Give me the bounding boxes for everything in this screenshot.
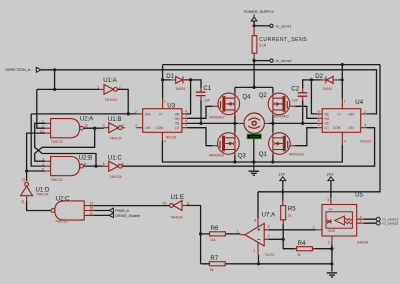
svg-text:D1: D1: [166, 73, 174, 80]
svg-text:8: 8: [254, 219, 256, 223]
svg-text:IRFR3412: IRFR3412: [209, 154, 224, 158]
wire op-amp -in to R5/R4 node: [269, 224, 332, 249]
svg-text:74HC04: 74HC04: [36, 193, 48, 197]
svg-text:2: 2: [42, 125, 44, 129]
svg-text:VB: VB: [324, 112, 329, 116]
svg-text:to_sens2: to_sens2: [276, 59, 292, 63]
svg-text:U7:A: U7:A: [262, 211, 276, 218]
svg-text:to_sens2: to_sens2: [382, 222, 398, 226]
gate driver U3 (IR2101): [135, 99, 187, 144]
capacitor C2: [291, 85, 307, 102]
wire U3 V+ from D1 anode node: [162, 80, 164, 99]
svg-text:1: 1: [42, 120, 44, 124]
wire op-amp output to R6: [225, 233, 240, 235]
svg-text:74HC04: 74HC04: [109, 136, 121, 140]
svg-text:4k: 4k: [297, 253, 301, 257]
wire net PWM latch enable: U1:D out to U2:A pin13 and U2:B pin5: [27, 133, 46, 181]
resistor R4: [294, 240, 316, 257]
svg-text:2: 2: [135, 110, 137, 114]
svg-text:10: 10: [163, 202, 167, 206]
wire mid rail left: U3 VS to bridge: [187, 122, 238, 124]
svg-text:LIN: LIN: [145, 126, 151, 130]
svg-text:10: 10: [90, 207, 94, 211]
wire DIRECTION drop to U1:A and U2:A pin2: [37, 70, 100, 128]
diode D1: [166, 73, 188, 91]
wire motor bottom to ground rail: [253, 134, 255, 162]
nand gate U2:B: [42, 154, 92, 182]
pin to_sens2 (right): [376, 221, 380, 225]
supply symbol 3V3: [328, 177, 334, 181]
mosfet Q1 (mirrored): [269, 133, 296, 155]
svg-text:3: 3: [103, 124, 105, 128]
svg-text:Q4: Q4: [242, 94, 251, 101]
svg-text:74HC04: 74HC04: [170, 216, 182, 220]
svg-text:4: 4: [164, 139, 166, 143]
wire U3 HO to Q4 gate: [187, 106, 213, 118]
svg-text:R6: R6: [211, 225, 219, 232]
svg-text:1: 1: [344, 100, 346, 104]
svg-text:Q1: Q1: [259, 151, 268, 158]
svg-text:5: 5: [103, 162, 105, 166]
svg-text:1: 1: [164, 100, 166, 104]
svg-text:VB: VB: [175, 112, 180, 116]
svg-text:0.1R: 0.1R: [259, 43, 267, 47]
pin DRIVE_Enable: [109, 213, 113, 218]
svg-text:U3: U3: [167, 103, 175, 110]
svg-text:VS: VS: [175, 122, 180, 126]
ground (U5 / R7 net): [327, 273, 337, 277]
wire U2:C pin10 to PWM_in: [89, 210, 109, 212]
svg-text:R4: R4: [298, 240, 306, 247]
svg-text:11: 11: [90, 202, 94, 206]
svg-text:HO: HO: [175, 117, 180, 121]
mosfet Q4: [213, 93, 240, 115]
mosfet Q2 (mirrored): [268, 93, 295, 115]
svg-text:HIN: HIN: [145, 112, 151, 116]
svg-text:1N914: 1N914: [175, 87, 185, 91]
svg-text:Q3: Q3: [238, 152, 247, 159]
svg-text:15V: 15V: [279, 173, 286, 177]
resistor CURRENT_SENS: [252, 26, 307, 58]
motor M1: [238, 113, 269, 133]
wire Q3 Q1 drain/source verticals: [235, 123, 273, 162]
svg-text:VS: VS: [324, 122, 329, 126]
svg-text:5: 5: [328, 198, 330, 202]
wire net V+ supply rail to gate drivers: [163, 65, 380, 114]
svg-text:V+: V+: [159, 112, 163, 116]
diode D2 (mirrored): [315, 73, 338, 91]
svg-text:3: 3: [42, 158, 44, 162]
wire to to_sens2 top pin: [254, 60, 270, 62]
svg-text:7: 7: [318, 114, 320, 118]
svg-text:IRFR3412: IRFR3412: [209, 116, 224, 120]
svg-text:6: 6: [84, 162, 86, 166]
op-amp U7:A: [237, 211, 276, 257]
svg-text:13: 13: [40, 130, 44, 134]
wire to to_sens1 top pin: [254, 25, 270, 27]
svg-text:LIN: LIN: [348, 126, 354, 130]
svg-text:3: 3: [268, 224, 270, 228]
wire U1:C out to U4 LIN: [122, 128, 375, 167]
pin to_sens1 (top): [270, 24, 273, 27]
svg-text:GND: GND: [328, 229, 336, 233]
wire U3 LO to Q3 gate: [187, 128, 213, 146]
wire U4 HO to Q2 gate: [295, 106, 317, 118]
svg-text:2: 2: [364, 110, 366, 114]
svg-text:to_sens1: to_sens1: [276, 24, 292, 28]
nand gate U2:C (mirrored): [51, 195, 94, 223]
wire cross-couple B: U2:B out to U1:C in and U2:A pin1: [35, 123, 104, 166]
svg-text:U4: U4: [355, 99, 363, 106]
inverter U1:B: [103, 116, 125, 140]
svg-text:11: 11: [186, 202, 190, 206]
svg-text:12: 12: [21, 178, 25, 182]
inverter U1:D (points up): [21, 178, 50, 204]
svg-text:10k: 10k: [210, 238, 216, 242]
svg-text:INA168: INA168: [357, 241, 368, 245]
svg-text:1: 1: [97, 85, 99, 89]
svg-text:1: 1: [313, 225, 315, 229]
ground (bridge): [249, 162, 259, 175]
wire C2 bottom to VS-right: [302, 101, 304, 124]
mosfet Q3: [213, 133, 240, 155]
inverter U1:E (mirrored, output left): [163, 194, 190, 220]
wire net 15V distribution: [258, 65, 380, 219]
inverter U1:A: [97, 77, 121, 102]
svg-text:74HC04: 74HC04: [105, 98, 117, 102]
svg-text:POWER_SUPPLY: POWER_SUPPLY: [244, 10, 275, 14]
svg-text:1N914: 1N914: [322, 87, 332, 91]
wire 3V3 to U5 pin5: [330, 181, 332, 198]
svg-text:7: 7: [185, 114, 187, 118]
wire CURRENT_SENS column: [253, 21, 255, 88]
wire U2:C output to U1:D input: [27, 201, 51, 211]
svg-text:U1:C: U1:C: [108, 154, 122, 161]
svg-text:4: 4: [344, 139, 346, 143]
svg-text:COM: COM: [155, 126, 163, 130]
svg-text:U2:A: U2:A: [80, 115, 94, 122]
wire D2 / C2 / U4 VB net: [303, 65, 343, 114]
svg-text:12: 12: [84, 124, 88, 128]
svg-text:6: 6: [122, 162, 124, 166]
svg-text:4: 4: [122, 124, 124, 128]
svg-text:C2: C2: [291, 85, 299, 92]
motor value tag (green): [247, 134, 261, 139]
svg-text:7k: 7k: [288, 214, 292, 218]
svg-text:HO: HO: [324, 117, 329, 121]
gate driver U4 (IR2101, mirrored): [317, 99, 371, 145]
svg-text:V+: V+: [329, 207, 333, 211]
svg-text:DIRECTION_in: DIRECTION_in: [6, 68, 31, 72]
svg-text:U1:A: U1:A: [103, 77, 117, 84]
wire mid rail right: bridge to U4 VS: [269, 122, 317, 124]
wire U5 pins 3,4 to to_sens pins: [363, 219, 376, 223]
svg-text:1uF: 1uF: [292, 99, 298, 103]
svg-text:8: 8: [185, 109, 187, 113]
supply symbol 15V: [280, 177, 286, 181]
svg-text:LO: LO: [175, 126, 180, 130]
svg-text:5: 5: [318, 123, 320, 127]
pin PWM_in: [109, 208, 113, 213]
current sense amp U5 (INA168): [313, 191, 369, 244]
svg-text:TL072: TL072: [265, 253, 275, 257]
svg-text:3: 3: [364, 124, 366, 128]
wire cross-couple A: U2:A out to U1:B in and U2:B pin3: [35, 128, 104, 161]
svg-text:IRFR3412: IRFR3412: [274, 115, 289, 119]
svg-text:13: 13: [21, 200, 25, 204]
svg-text:IR2101: IR2101: [166, 136, 177, 140]
wire U1:E input to R6/R7 node: [186, 206, 210, 264]
svg-text:5: 5: [185, 123, 187, 127]
nand gate U2:A: [40, 115, 94, 143]
svg-text:U5: U5: [355, 191, 363, 198]
svg-text:2: 2: [328, 240, 330, 244]
svg-text:HIN: HIN: [348, 112, 354, 116]
wire R7 to op-amp V- and U5 GND net: [225, 244, 332, 271]
svg-text:74HC04: 74HC04: [109, 175, 121, 179]
pin to_sens1 (right): [376, 217, 380, 221]
svg-text:Q2: Q2: [259, 92, 268, 99]
svg-text:3: 3: [135, 124, 137, 128]
svg-text:3V3: 3V3: [327, 173, 334, 177]
svg-text:DRIVE_Enable: DRIVE_Enable: [115, 214, 140, 218]
wire C1 bottom to VS-left: [200, 101, 202, 124]
wire U4 LO to Q1 gate: [295, 128, 317, 146]
svg-text:1uF: 1uF: [204, 99, 210, 103]
svg-text:D2: D2: [315, 73, 323, 80]
svg-text:U2:C: U2:C: [56, 195, 70, 202]
svg-text:U2:B: U2:B: [79, 154, 93, 161]
svg-text:LO: LO: [324, 126, 329, 130]
svg-text:V+: V+: [337, 112, 341, 116]
svg-text:PWM_in: PWM_in: [115, 209, 129, 213]
svg-text:IR2101: IR2101: [361, 139, 372, 143]
wire net DIRECTION rail: [41, 70, 377, 114]
wire op-amp +in to U5 pin1: [269, 229, 316, 231]
resistor R7: [209, 255, 225, 272]
svg-text:74HC10: 74HC10: [50, 178, 62, 182]
wire U2:C pin9 to DRIVE_Enable: [89, 214, 109, 216]
svg-text:CURRENT_SENS: CURRENT_SENS: [259, 37, 307, 43]
svg-text:C1: C1: [203, 85, 211, 92]
svg-text:COM: COM: [333, 126, 341, 130]
wire ground rail COM: [162, 140, 342, 162]
svg-text:2: 2: [119, 85, 121, 89]
pin DIRECTION_in: [36, 67, 41, 72]
pin to_sens2 (top): [270, 59, 273, 62]
supply symbol POWER_SUPPLY: [251, 14, 257, 21]
svg-text:IRFR3412: IRFR3412: [289, 153, 304, 157]
svg-text:U1:E: U1:E: [171, 194, 185, 201]
svg-text:U1:B: U1:B: [108, 116, 122, 123]
wire drain top row Q4-Q2: [235, 87, 273, 123]
svg-text:4: 4: [360, 220, 362, 224]
svg-text:1: 1: [237, 230, 239, 234]
svg-text:5k: 5k: [210, 268, 214, 272]
resistor R6: [210, 225, 226, 242]
svg-text:R7: R7: [210, 255, 218, 262]
svg-text:4: 4: [42, 163, 44, 167]
svg-text:5: 5: [42, 167, 44, 171]
resistor R5: [281, 201, 297, 224]
svg-text:R5: R5: [288, 205, 296, 212]
inverter U1:C: [103, 154, 124, 179]
svg-text:4: 4: [253, 249, 255, 253]
wire U2:C pin11 to U1:E output: [89, 205, 169, 207]
svg-text:2: 2: [268, 235, 270, 239]
svg-text:9: 9: [90, 211, 92, 215]
svg-text:74HC10: 74HC10: [51, 140, 63, 144]
capacitor C1: [196, 85, 212, 103]
svg-text:74HC10: 74HC10: [55, 220, 67, 224]
svg-text:8: 8: [318, 109, 320, 113]
wire net /DIR: U1:A out to U3 HIN and U2:B pin4: [31, 89, 136, 166]
